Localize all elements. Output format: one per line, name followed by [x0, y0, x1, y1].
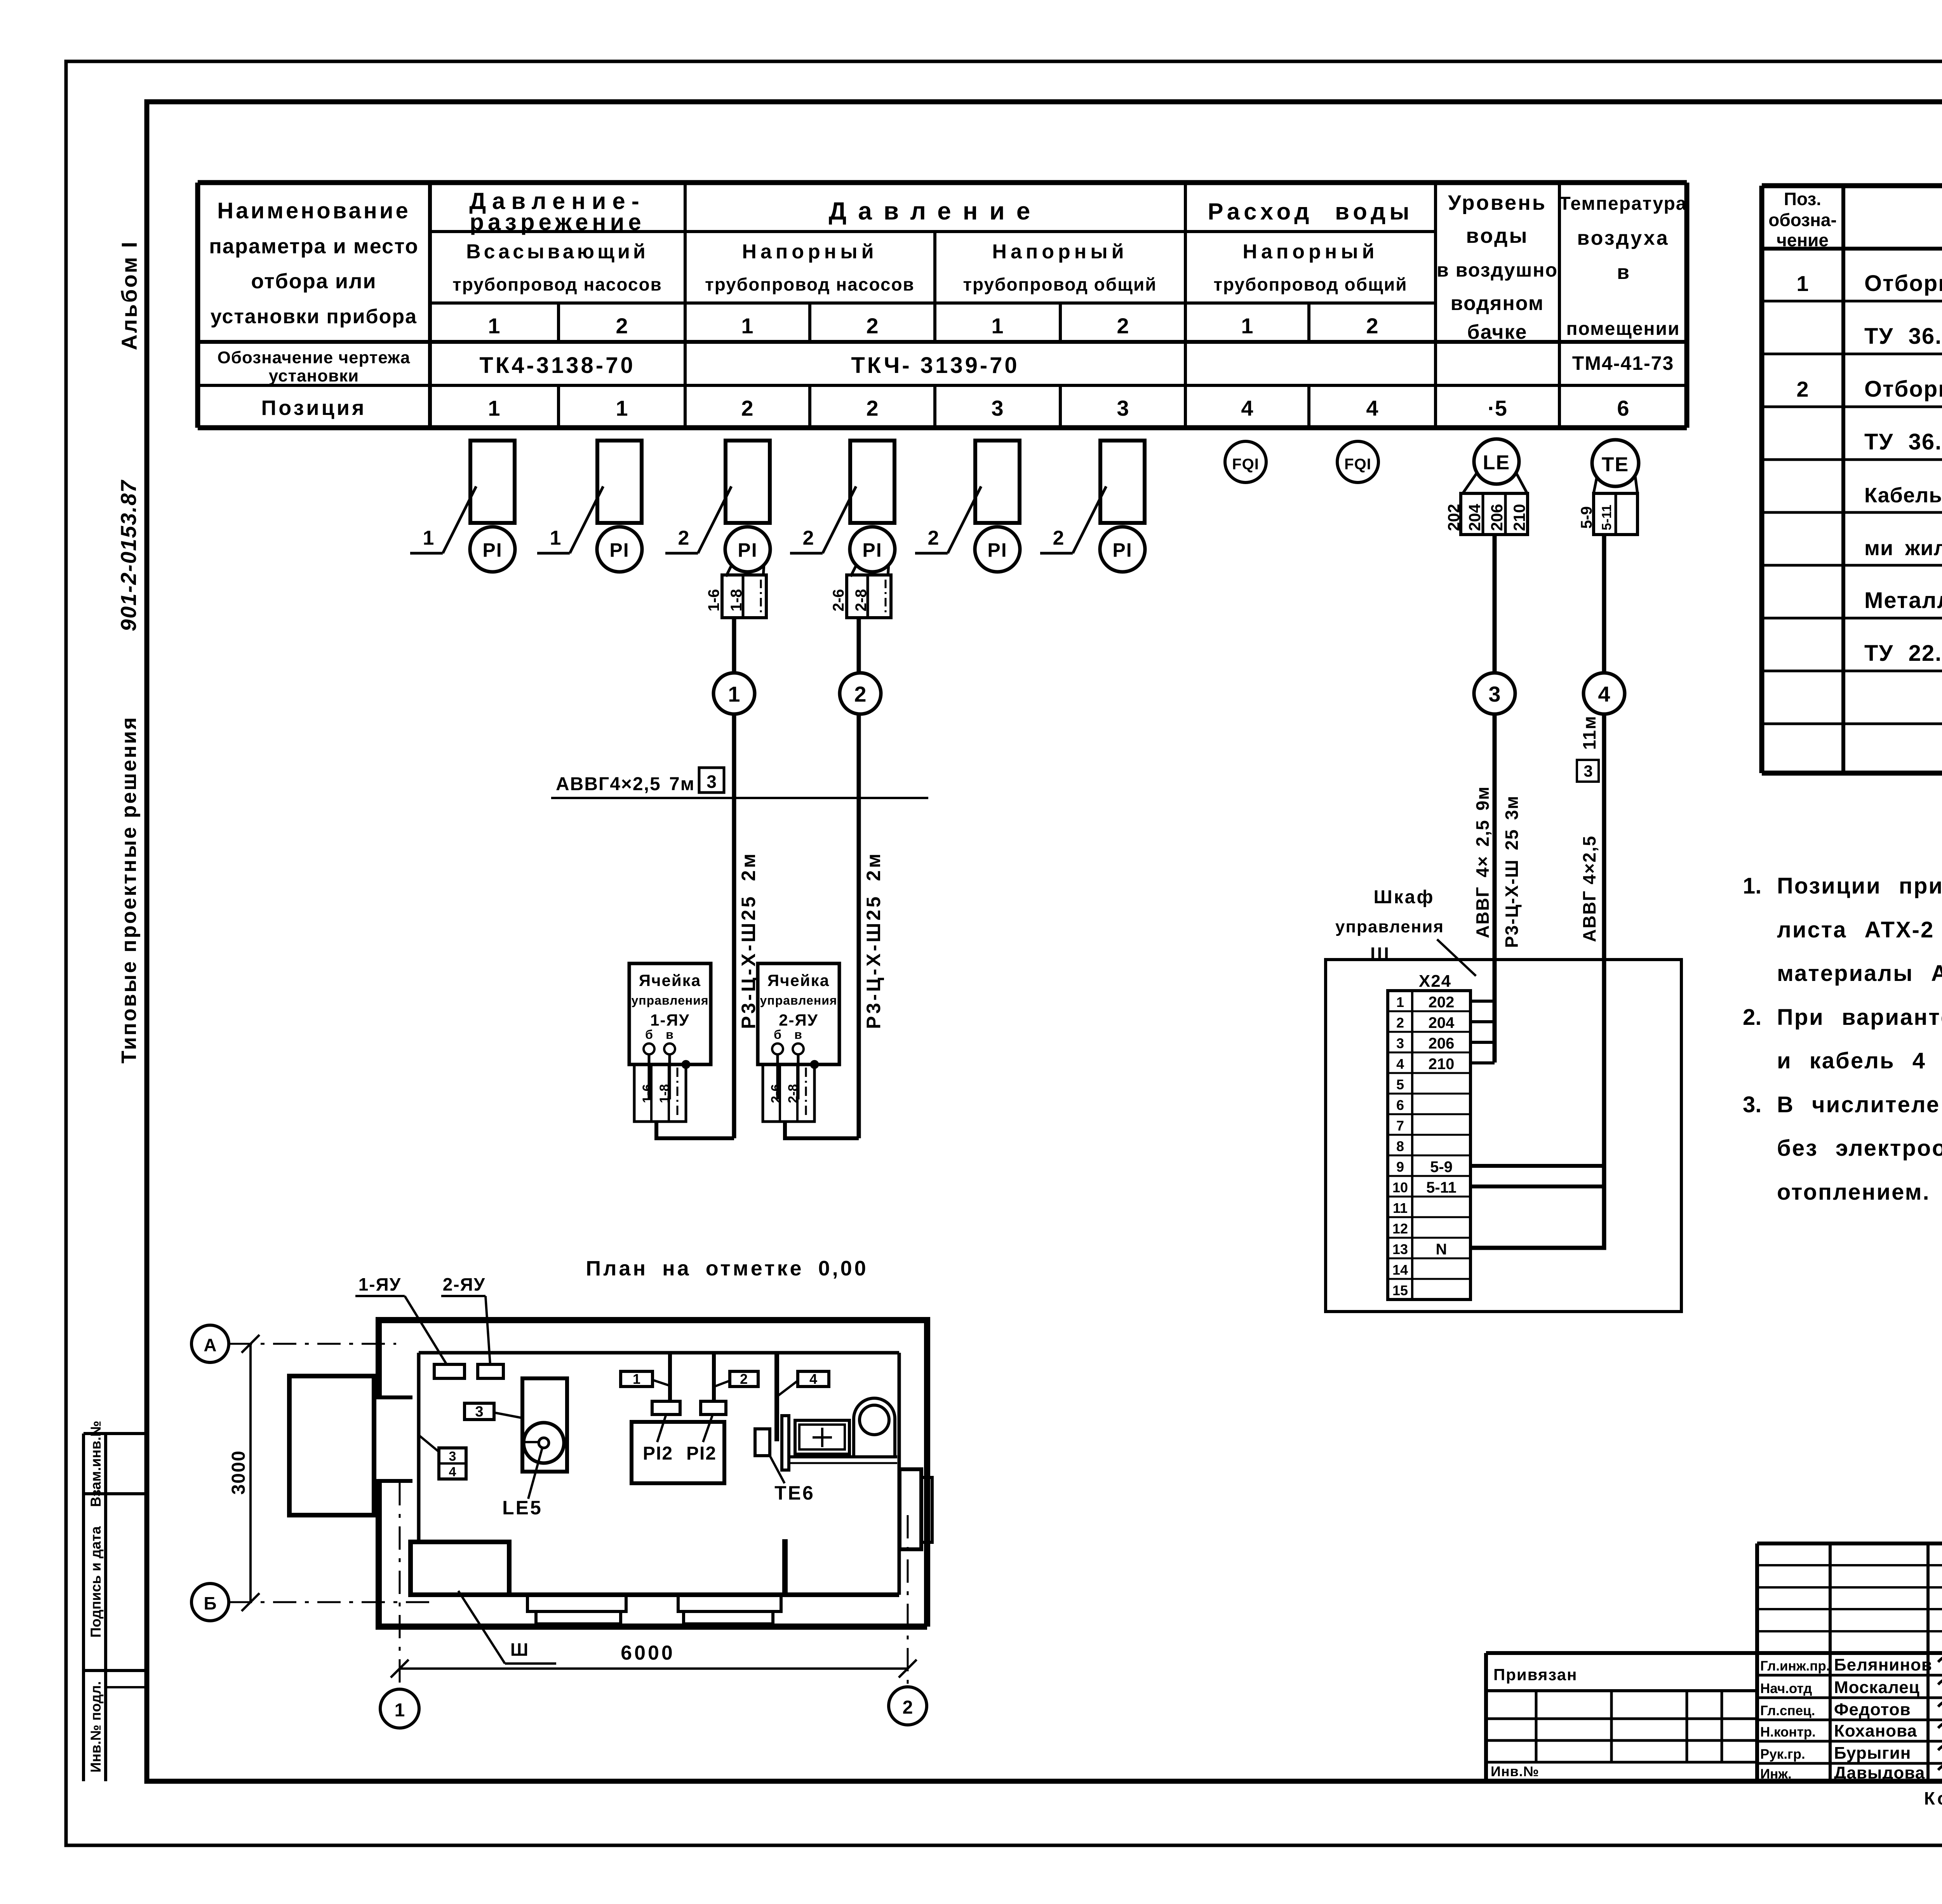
svg-text:3: 3 — [1396, 1035, 1404, 1051]
svg-text:трубопровод насосов: трубопровод насосов — [452, 274, 662, 294]
svg-text:Альбом I: Альбом I — [117, 240, 141, 350]
svg-text:4: 4 — [449, 1465, 456, 1479]
svg-text:Гл.инж.пр.: Гл.инж.пр. — [1760, 1658, 1830, 1674]
svg-text:4: 4 — [1598, 682, 1610, 706]
svg-text:5-11: 5-11 — [1426, 1179, 1456, 1196]
svg-text:чение: чение — [1777, 230, 1829, 250]
svg-text:установки: установки — [269, 366, 359, 385]
svg-text:5-9: 5-9 — [1578, 506, 1595, 529]
svg-text:АВВГ 4×2,5: АВВГ 4×2,5 — [1579, 835, 1599, 942]
svg-text:Наименование: Наименование — [217, 198, 411, 223]
svg-text:трубопровод общий: трубопровод общий — [1213, 274, 1407, 294]
svg-text:А: А — [204, 1335, 216, 1355]
svg-text:Позиция: Позиция — [261, 396, 366, 420]
svg-text:ТУ 36.1258-76.: ТУ 36.1258-76. — [1864, 429, 1942, 455]
svg-text:1-8: 1-8 — [657, 1084, 672, 1103]
svg-text:Расход воды: Расход воды — [1208, 199, 1413, 225]
svg-text:Н.контр.: Н.контр. — [1760, 1725, 1816, 1740]
svg-text:1: 1 — [991, 314, 1003, 338]
svg-text:6: 6 — [1396, 1097, 1404, 1113]
svg-text:11м: 11м — [1579, 715, 1599, 750]
svg-text:3: 3 — [706, 772, 717, 792]
svg-text:PI: PI — [609, 539, 629, 561]
svg-text:210: 210 — [1510, 504, 1528, 531]
svg-text:управления: управления — [1335, 917, 1444, 936]
svg-text:2: 2 — [928, 527, 939, 549]
svg-text:Подпись и дата: Подпись и дата — [88, 1526, 104, 1637]
svg-text:Ячейка: Ячейка — [767, 971, 830, 989]
svg-text:Напорный: Напорный — [1242, 240, 1378, 263]
svg-text:Температура: Температура — [1559, 193, 1687, 214]
svg-text:204: 204 — [1465, 503, 1484, 531]
svg-text:4: 4 — [1396, 1056, 1404, 1072]
svg-text:ТУ 36.1258-76: ТУ 36.1258-76 — [1864, 324, 1942, 349]
svg-text:8: 8 — [1396, 1138, 1404, 1154]
svg-text:2-8: 2-8 — [853, 589, 870, 611]
svg-text:Отборное устройство 16-225П: Отборное устройство 16-225П — [1864, 271, 1942, 296]
svg-text:2: 2 — [741, 396, 753, 420]
svg-text:TE: TE — [1602, 453, 1629, 476]
svg-text:ТКЧ- 3139-70: ТКЧ- 3139-70 — [851, 353, 1019, 378]
svg-text:2-ЯУ: 2-ЯУ — [443, 1274, 486, 1294]
svg-text:1: 1 — [1241, 314, 1253, 338]
svg-text:Копировая: Копировая — [1924, 1788, 1942, 1808]
svg-text:1-ЯУ: 1-ЯУ — [358, 1274, 402, 1294]
svg-text:Отборное устройство 16-225У: Отборное устройство 16-225У — [1864, 376, 1942, 402]
svg-text:·5: ·5 — [1488, 396, 1507, 420]
svg-text:Взам.инв.№: Взам.инв.№ — [88, 1421, 104, 1507]
svg-text:1-ЯУ: 1-ЯУ — [650, 1011, 690, 1029]
svg-text:б: б — [774, 1028, 781, 1042]
svg-text:Инж.: Инж. — [1760, 1766, 1792, 1782]
svg-text:1: 1 — [1396, 994, 1404, 1010]
svg-text:разрежение: разрежение — [470, 209, 645, 235]
svg-text:1: 1 — [616, 396, 628, 420]
svg-text:PI: PI — [862, 539, 882, 561]
svg-text:6: 6 — [1617, 396, 1629, 420]
svg-text:Инв.№ подл.: Инв.№ подл. — [88, 1681, 104, 1772]
svg-text:ТЕ6: ТЕ6 — [774, 1482, 815, 1504]
svg-text:4: 4 — [1241, 396, 1253, 420]
svg-text:PI: PI — [987, 539, 1007, 561]
svg-text:X24: X24 — [1419, 972, 1451, 991]
svg-text:План на отметке 0,00: План на отметке 0,00 — [586, 1257, 868, 1280]
svg-text:3000: 3000 — [228, 1450, 249, 1495]
svg-text:Коханова: Коханова — [1834, 1721, 1917, 1740]
svg-text:1-8: 1-8 — [728, 589, 745, 611]
svg-text:1: 1 — [488, 314, 500, 338]
svg-text:206: 206 — [1429, 1035, 1455, 1052]
svg-text:5-11: 5-11 — [1599, 505, 1614, 530]
svg-text:2-8: 2-8 — [786, 1084, 800, 1103]
svg-text:водяном: водяном — [1451, 292, 1544, 315]
svg-text:PI2: PI2 — [643, 1443, 673, 1464]
svg-text:1: 1 — [395, 1700, 405, 1721]
svg-text:В числителе указана длина: В числителе указана длина кабеля при вар… — [1777, 1092, 1942, 1117]
svg-text:3: 3 — [991, 396, 1003, 420]
svg-text:Бурыгин: Бурыгин — [1834, 1744, 1911, 1763]
svg-text:без электроотопления, в зна: без электроотопления, в знаменателе с эл… — [1777, 1136, 1942, 1161]
svg-text:2: 2 — [1396, 1015, 1404, 1031]
svg-text:параметра и место: параметра и место — [209, 235, 419, 258]
svg-text:1-6: 1-6 — [705, 589, 722, 611]
svg-text:установки прибора: установки прибора — [211, 305, 417, 328]
svg-text:отоплением.: отоплением. — [1777, 1179, 1930, 1205]
svg-text:бачке: бачке — [1467, 321, 1528, 343]
svg-text:2: 2 — [1366, 314, 1378, 338]
svg-text:2: 2 — [866, 314, 878, 338]
svg-text:N: N — [1436, 1241, 1447, 1258]
svg-text:2: 2 — [1796, 377, 1808, 401]
svg-text:листа АТХ-2 и спецификации: листа АТХ-2 и спецификации на оборудован… — [1777, 917, 1942, 942]
svg-text:13: 13 — [1392, 1241, 1408, 1257]
svg-text:отбора или: отбора или — [251, 270, 376, 293]
svg-text:3: 3 — [1488, 682, 1500, 706]
svg-text:и кабель 4 исключить.: и кабель 4 исключить. — [1777, 1048, 1942, 1073]
svg-text:LE: LE — [1483, 451, 1510, 474]
svg-text:901-2-0153.87: 901-2-0153.87 — [116, 479, 141, 631]
svg-text:4: 4 — [1366, 396, 1378, 420]
svg-text:1.: 1. — [1743, 873, 1761, 899]
svg-text:3: 3 — [1584, 762, 1592, 780]
svg-text:7: 7 — [1396, 1118, 1404, 1134]
svg-text:При варианте без электроото: При варианте без электроотопления позици… — [1777, 1005, 1942, 1030]
svg-text:Шкаф: Шкаф — [1374, 887, 1435, 908]
svg-text:Давление: Давление — [829, 197, 1042, 225]
svg-text:2-6: 2-6 — [830, 589, 847, 611]
svg-text:ми жилами АКВВГ - 4×2,5 мм2: ми жилами АКВВГ - 4×2,5 мм2 — [1864, 531, 1942, 560]
svg-text:Нач.отд: Нач.отд — [1760, 1681, 1812, 1696]
svg-text:ТК4-3138-70: ТК4-3138-70 — [479, 353, 635, 378]
svg-text:FQI: FQI — [1344, 456, 1371, 473]
svg-text:2.: 2. — [1743, 1005, 1761, 1030]
svg-text:2: 2 — [1053, 527, 1064, 549]
svg-text:2-6: 2-6 — [769, 1084, 783, 1103]
svg-text:1: 1 — [1796, 271, 1808, 296]
svg-text:управления: управления — [631, 993, 708, 1007]
svg-text:2: 2 — [740, 1371, 748, 1387]
svg-text:10: 10 — [1392, 1179, 1408, 1195]
svg-text:PI: PI — [482, 539, 502, 561]
svg-text:Ячейка: Ячейка — [639, 971, 701, 989]
svg-text:2: 2 — [854, 682, 866, 706]
svg-text:1-6: 1-6 — [640, 1084, 655, 1103]
svg-text:Федотов: Федотов — [1834, 1700, 1911, 1719]
svg-text:15: 15 — [1392, 1282, 1408, 1298]
svg-text:2: 2 — [803, 527, 814, 549]
svg-text:Обозначение чертежа: Обозначение чертежа — [218, 348, 411, 367]
svg-text:воздуха: воздуха — [1577, 227, 1669, 249]
svg-text:6000: 6000 — [621, 1642, 675, 1664]
svg-text:Белянинов: Белянинов — [1834, 1655, 1932, 1674]
svg-text:202: 202 — [1429, 994, 1455, 1011]
svg-text:обозна-: обозна- — [1768, 210, 1837, 230]
svg-text:Рук.гр.: Рук.гр. — [1760, 1747, 1805, 1762]
svg-text:в: в — [1617, 261, 1629, 284]
svg-text:5-9: 5-9 — [1430, 1158, 1453, 1176]
svg-text:204: 204 — [1429, 1014, 1455, 1031]
svg-text:в воздушно: в воздушно — [1437, 259, 1558, 281]
svg-text:1: 1 — [728, 682, 740, 706]
svg-text:Типовые проектные решения: Типовые проектные решения — [117, 716, 141, 1063]
svg-text:PI: PI — [1112, 539, 1132, 561]
svg-text:2-ЯУ: 2-ЯУ — [779, 1011, 818, 1029]
svg-text:АВВГ4×2,5 7м: АВВГ4×2,5 7м — [556, 774, 695, 794]
svg-text:2: 2 — [903, 1697, 913, 1718]
svg-text:11: 11 — [1393, 1200, 1408, 1216]
svg-text:210: 210 — [1429, 1056, 1455, 1073]
svg-text:Инв.№: Инв.№ — [1491, 1763, 1539, 1779]
svg-text:PI2: PI2 — [686, 1443, 717, 1464]
svg-text:LE5: LE5 — [502, 1497, 543, 1519]
svg-text:управления: управления — [760, 993, 837, 1007]
svg-text:Позиции приборов и аппарату: Позиции приборов и аппаратуры указаны со… — [1777, 873, 1942, 899]
svg-text:Металлорукав Р3-Ц-Х-Ш25: Металлорукав Р3-Ц-Х-Ш25 — [1864, 588, 1942, 613]
svg-text:Напорный: Напорный — [992, 240, 1128, 263]
svg-text:Всасывающий: Всасывающий — [466, 240, 649, 263]
svg-text:Уровень: Уровень — [1448, 191, 1547, 214]
svg-text:Б: Б — [204, 1593, 216, 1613]
svg-text:1: 1 — [488, 396, 500, 420]
svg-text:б: б — [645, 1028, 653, 1042]
svg-text:Ш: Ш — [510, 1639, 528, 1660]
svg-text:14: 14 — [1392, 1262, 1408, 1278]
svg-text:202: 202 — [1444, 504, 1463, 531]
svg-text:1: 1 — [550, 527, 561, 549]
svg-text:помещении: помещении — [1566, 319, 1680, 339]
svg-text:3.: 3. — [1743, 1092, 1761, 1117]
svg-text:FQI: FQI — [1232, 456, 1259, 473]
svg-text:Кабель контрольный с алюмини: Кабель контрольный с алюминиевы- — [1864, 484, 1942, 507]
svg-text:Гл.спец.: Гл.спец. — [1760, 1703, 1815, 1718]
svg-text:206: 206 — [1488, 504, 1506, 531]
svg-text:2: 2 — [866, 396, 878, 420]
svg-text:Ш: Ш — [1370, 944, 1389, 965]
svg-text:Напорный: Напорный — [742, 240, 877, 263]
svg-text:в: в — [666, 1028, 673, 1042]
svg-text:Поз.: Поз. — [1784, 189, 1821, 209]
svg-text:Привязан: Привязан — [1493, 1665, 1577, 1684]
svg-text:4: 4 — [809, 1371, 817, 1387]
svg-text:АВВГ 4× 2,5 9м: АВВГ 4× 2,5 9м — [1472, 786, 1493, 938]
svg-text:5: 5 — [1396, 1077, 1404, 1092]
svg-text:3: 3 — [475, 1404, 483, 1420]
svg-text:PI: PI — [738, 539, 757, 561]
svg-text:трубопровод общий: трубопровод общий — [963, 274, 1157, 294]
svg-text:1: 1 — [633, 1371, 640, 1387]
svg-text:ТУ 22. 3988-77: ТУ 22. 3988-77 — [1864, 641, 1942, 666]
svg-text:1: 1 — [423, 527, 434, 549]
svg-text:9: 9 — [1396, 1159, 1404, 1175]
svg-text:3: 3 — [1117, 396, 1129, 420]
svg-text:воды: воды — [1466, 224, 1528, 247]
svg-text:2: 2 — [678, 527, 689, 549]
svg-text:3: 3 — [449, 1449, 456, 1464]
svg-text:2: 2 — [1117, 314, 1129, 338]
svg-text:материалы АТХ.С01.: материалы АТХ.С01. — [1777, 961, 1942, 986]
svg-text:ТМ4-41-73: ТМ4-41-73 — [1572, 352, 1674, 374]
svg-text:Давыдова: Давыдова — [1834, 1763, 1925, 1782]
svg-text:трубопровод насосов: трубопровод насосов — [705, 274, 915, 294]
svg-text:12: 12 — [1392, 1221, 1408, 1237]
svg-text:1: 1 — [741, 314, 753, 338]
svg-text:Москалец: Москалец — [1834, 1678, 1920, 1697]
svg-text:Р3-Ц-Х-Ш 25 3м: Р3-Ц-Х-Ш 25 3м — [1502, 795, 1522, 948]
svg-text:2: 2 — [616, 314, 628, 338]
svg-text:в: в — [794, 1028, 802, 1042]
svg-text:Р3-Ц-Х-Ш25 2м: Р3-Ц-Х-Ш25 2м — [863, 851, 884, 1029]
